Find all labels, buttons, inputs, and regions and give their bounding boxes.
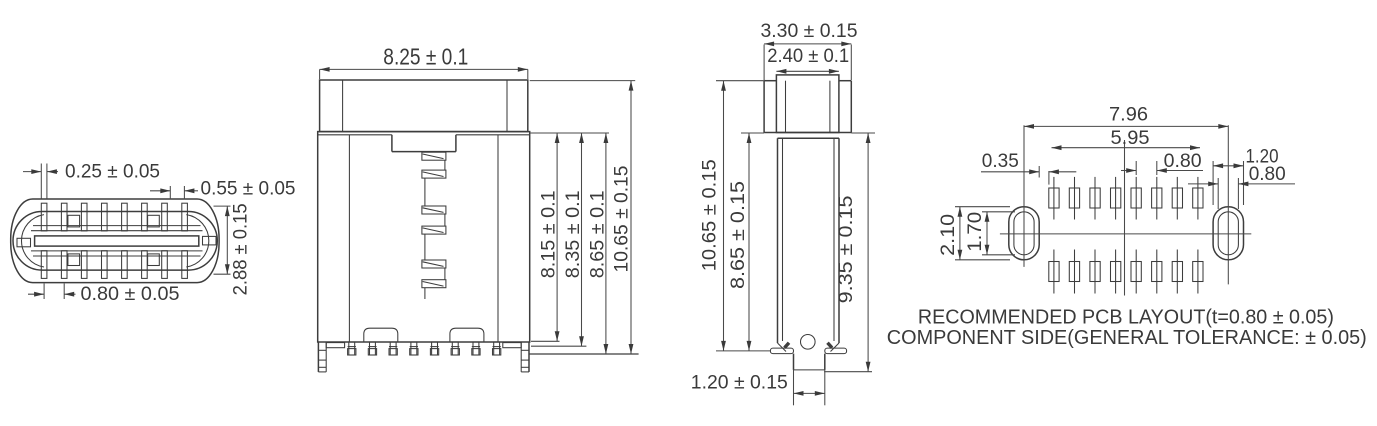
top view right shell leg [521, 342, 529, 372]
side dimension 8.65 line [747, 133, 752, 351]
top view latch link 2-3 [424, 178, 426, 206]
dimension 8.25 line [320, 67, 528, 72]
top view solder pin 4 [410, 342, 418, 355]
svg-text:9.35 ± 0.15: 9.35 ± 0.15 [836, 195, 857, 303]
dimension 8.15 top extension [530, 132, 609, 134]
dimension 8.65 text [587, 190, 608, 278]
top view left shell leg [318, 342, 326, 372]
side dimension 9.35 bottom extension [824, 371, 872, 373]
dimension 0.80 front text [81, 284, 180, 305]
dimension 10.65 text [611, 166, 632, 273]
top view solder pin 5 [430, 342, 438, 355]
top view solder pin 8 [493, 342, 501, 355]
dimension 3.30 extension lines [764, 45, 851, 81]
side dimension 10.65 bottom extension [716, 350, 770, 352]
side dimension 9.35 top extension [851, 132, 875, 134]
dimension 0.80 oval leader [1188, 182, 1295, 187]
dimension 0.35 leader [981, 169, 1076, 174]
dimension 8.35 bottom extension [531, 345, 586, 347]
side view plug [776, 75, 839, 133]
top view shell hat [320, 80, 528, 132]
svg-text:RECOMMENDED PCB LAYOUT(t=0.80: RECOMMENDED PCB LAYOUT(t=0.80 ± 0.05) [918, 307, 1334, 329]
top view left locating bump [364, 328, 398, 342]
dimension 8.25 extension lines [320, 69, 528, 79]
side view right wing [825, 348, 847, 354]
dimension 1.20 extension [1213, 161, 1243, 205]
front view top contact rail [33, 225, 201, 227]
pcb bottom pad 7 [1172, 250, 1182, 294]
svg-text:8.65 ± 0.1: 8.65 ± 0.1 [587, 190, 608, 278]
side view body inner left line [782, 138, 784, 341]
front view bottom contact pin 1 [41, 251, 47, 279]
top view left ledge [326, 343, 344, 348]
svg-text:1.70: 1.70 [965, 212, 986, 252]
dimension 8.35 text [563, 190, 584, 278]
dimension 0.55 extension lines [170, 186, 184, 200]
dimension 8.65 line [604, 133, 609, 354]
dimension 2.10 extension [955, 207, 1010, 260]
side view body bottom chamfers [778, 343, 840, 352]
dimension 2.40 text [767, 46, 849, 67]
front view top contact pin 3 [81, 203, 87, 231]
pcb bottom pad 2 [1069, 250, 1079, 294]
svg-text:0.25 ± 0.05: 0.25 ± 0.05 [65, 162, 160, 183]
side view bottom hole [801, 335, 816, 350]
pcb top pad 8 [1193, 177, 1203, 220]
top view body inner right line [497, 135, 499, 342]
side view shell inner right line [829, 81, 831, 133]
front view top contact pin 1 [41, 203, 47, 231]
front view bottom contact pin 6 [142, 251, 148, 279]
dimension 0.55 leader [150, 188, 198, 193]
top view spring latch 2 [422, 170, 446, 178]
svg-text:0.35: 0.35 [982, 151, 1019, 172]
front view bottom contact pin 5 [122, 251, 128, 279]
front view bottom retention block left [68, 254, 80, 266]
dimension 0.80 oval text [1249, 164, 1286, 185]
side view left wing [770, 348, 793, 354]
side dimension 9.35 text [836, 195, 857, 303]
dimension 2.88 text [231, 203, 252, 295]
front view left end inner arc [21, 215, 44, 267]
svg-text:3.30 ± 0.15: 3.30 ± 0.15 [761, 21, 858, 42]
dimension 5.95 line [1052, 145, 1201, 150]
caption line 2 [887, 327, 1367, 349]
svg-text:2.10: 2.10 [938, 214, 959, 256]
front view bottom contact rail [33, 255, 201, 257]
top view solder pin 2 [368, 342, 376, 355]
dimension 0.35 ticks [1039, 166, 1049, 185]
front view bottom contact pin 3 [81, 251, 87, 279]
svg-text:2.88 ± 0.15: 2.88 ± 0.15 [231, 203, 252, 295]
svg-text:8.15 ± 0.1: 8.15 ± 0.1 [539, 190, 560, 278]
top view hat inner left line [342, 80, 344, 132]
front view top retention block left [68, 215, 80, 227]
pcb left oval centerline [1023, 125, 1025, 267]
side dimension 8.65 text [728, 181, 749, 289]
dimension 2.88 extension lines [214, 206, 231, 274]
pcb bottom pad 8 [1193, 250, 1203, 294]
dimension 0.35 text [982, 151, 1019, 172]
front view tongue right cap [203, 236, 217, 245]
dimension 0.80 pitch ticks [1136, 161, 1157, 175]
front view bottom retention block right [148, 254, 160, 266]
dimension 8.65 bottom extension [529, 353, 639, 355]
dimension 10.65 top extension [530, 80, 636, 82]
dimension 8.25 text [383, 43, 468, 69]
dimension 2.10 line [958, 207, 963, 260]
front view tongue support bottom line [31, 250, 203, 252]
svg-text:2.40 ± 0.1: 2.40 ± 0.1 [767, 46, 849, 67]
dimension 1.20 line [794, 391, 825, 396]
pcb bottom pad 4 [1111, 250, 1121, 294]
dimension 1.20 extension lines [794, 370, 825, 405]
pcb bottom pad 3 [1090, 250, 1100, 294]
top view solder pin 7 [472, 342, 480, 355]
top view latch link 5-6 [444, 268, 446, 280]
dimension 0.55 text [201, 178, 296, 199]
svg-text:10.65 ± 0.15: 10.65 ± 0.15 [700, 159, 721, 271]
dimension 0.80 leader [28, 292, 76, 297]
front view top contact pin 7 [162, 203, 168, 231]
side view center foot [794, 354, 825, 370]
top view spring latch 5 [422, 260, 446, 268]
side dimension 9.35 line [866, 133, 871, 372]
dimension 1.70 line [985, 212, 990, 255]
pcb bottom pad 6 [1152, 250, 1162, 294]
side view left solder tab [785, 343, 790, 348]
front view top retention block right [148, 215, 160, 227]
side view shell [764, 81, 851, 133]
side view body [778, 138, 840, 343]
top view spring latch 1 [422, 152, 446, 160]
dimension 0.80 pitch leader [1121, 168, 1203, 173]
dimension 10.65 line [629, 81, 634, 354]
pcb right oval pad inner [1218, 212, 1238, 255]
front view tongue support top line [31, 230, 203, 232]
pcb top pad 7 [1172, 177, 1182, 220]
pcb left oval pad inner [1014, 212, 1034, 255]
front view top contact pin 5 [122, 203, 128, 231]
side dimension 8.65 top extension [741, 132, 764, 134]
pcb top pad 2 [1069, 177, 1079, 220]
dimension 5.95 text [1111, 128, 1150, 149]
dimension 7.96 text [1109, 105, 1148, 126]
svg-text:0.80: 0.80 [1249, 164, 1286, 185]
pcb top pad 3 [1090, 177, 1100, 220]
dimension 8.35 line [579, 133, 584, 346]
pcb top pad 6 [1152, 177, 1162, 220]
caption line 1 [918, 307, 1334, 329]
svg-text:8.25 ± 0.1: 8.25 ± 0.1 [383, 43, 468, 69]
top view center notch [392, 135, 456, 152]
top view solder pin 3 [389, 342, 397, 355]
top view hat inner right line [506, 80, 508, 132]
svg-text:1.20 ± 0.15: 1.20 ± 0.15 [691, 373, 788, 394]
top view body inner left line [348, 135, 350, 342]
dimension 2.10 text [938, 214, 959, 256]
side view shell inner left line [785, 81, 787, 133]
dimension 3.30 text [761, 21, 858, 42]
top view latch tail [424, 288, 426, 299]
dimension 7.96 line [1024, 124, 1228, 129]
top view body rim line [318, 134, 530, 136]
dimension 0.80 oval ticks [1218, 178, 1238, 209]
dimension 0.80 extension lines [44, 284, 64, 300]
side dimension 10.65 top extension [716, 80, 764, 82]
front view top contact pin 8 [182, 203, 188, 231]
front view tongue [35, 236, 199, 246]
dimension 8.15 bottom extension [531, 340, 560, 342]
dimension 1.70 extension [982, 212, 1015, 255]
front view bottom contact pin 8 [182, 251, 188, 279]
pcb bottom pad 5 [1131, 250, 1141, 294]
dimension 8.15 line [555, 133, 560, 341]
svg-text:5.95: 5.95 [1111, 128, 1150, 149]
svg-text:COMPONENT SIDE(GENERAL TOLERAN: COMPONENT SIDE(GENERAL TOLERANCE: ± 0.05… [887, 327, 1367, 349]
dimension 1.20 oval line [1213, 163, 1243, 168]
side view body inner right line [833, 138, 835, 341]
pcb horizontal centerline [1000, 233, 1251, 235]
dimension 1.20 bottom text [691, 373, 788, 394]
front view bottom contact pin 2 [61, 251, 67, 279]
svg-text:10.65 ± 0.15: 10.65 ± 0.15 [611, 166, 632, 273]
svg-text:8.35 ± 0.1: 8.35 ± 0.1 [563, 190, 584, 278]
top view solder pin 6 [451, 342, 459, 355]
front view top contact pin 2 [61, 203, 67, 231]
pcb top pad 4 [1111, 177, 1121, 220]
top view solder pin 1 [348, 342, 356, 355]
dimension 1.20 text [1246, 147, 1279, 168]
front view outer shell [11, 199, 219, 283]
side dimension 10.65 text [700, 159, 721, 271]
dimension 2.40 line [776, 69, 839, 74]
pcb left oval pad outer [1009, 207, 1039, 260]
front view cavity inner wall [13, 212, 217, 271]
dimension 3.30 line [764, 42, 851, 47]
top view right locating bump [450, 328, 484, 342]
front view top contact pin 4 [102, 203, 108, 231]
top view spring latch 6 [422, 280, 446, 288]
svg-text:7.96: 7.96 [1109, 105, 1148, 126]
dimension 1.70 text [965, 212, 986, 252]
pcb bottom pad 1 [1049, 250, 1059, 294]
svg-text:8.65 ± 0.15: 8.65 ± 0.15 [728, 181, 749, 289]
svg-text:0.80: 0.80 [1164, 151, 1202, 172]
dimension 0.25 text [65, 162, 160, 183]
dimension 0.25 extension lines [41, 164, 47, 199]
side view right solder tab [828, 343, 833, 348]
svg-text:0.80 ± 0.05: 0.80 ± 0.05 [81, 284, 180, 305]
front view bottom contact pin 4 [102, 251, 108, 279]
dimension 0.80 pitch text [1164, 151, 1202, 172]
top view spring latch 4 [422, 226, 446, 234]
front view top contact pin 6 [142, 203, 148, 231]
pcb top pad 1 [1049, 177, 1059, 220]
front view tongue left cap [17, 238, 31, 247]
front view right end inner arc [186, 215, 209, 267]
dimension 2.88 line [225, 206, 230, 274]
dimension 8.15 text [539, 190, 560, 278]
top view body outline [318, 132, 530, 342]
pcb top pad 5 [1131, 177, 1141, 220]
front view bottom contact pin 7 [162, 251, 168, 279]
top view latch link 4-5 [424, 234, 426, 260]
pcb central centerline [1124, 140, 1126, 296]
pcb right oval pad outer [1213, 207, 1243, 260]
side dimension 10.65 line [721, 81, 726, 351]
dimension 0.25 leader [23, 169, 58, 174]
top view latch link 3-4 [444, 214, 446, 226]
top view latch link 1-2 [444, 160, 446, 170]
svg-text:0.55 ± 0.05: 0.55 ± 0.05 [201, 178, 296, 199]
pcb right oval centerline [1227, 125, 1229, 284]
top view right ledge [503, 343, 521, 348]
top view spring latch 3 [422, 206, 446, 214]
